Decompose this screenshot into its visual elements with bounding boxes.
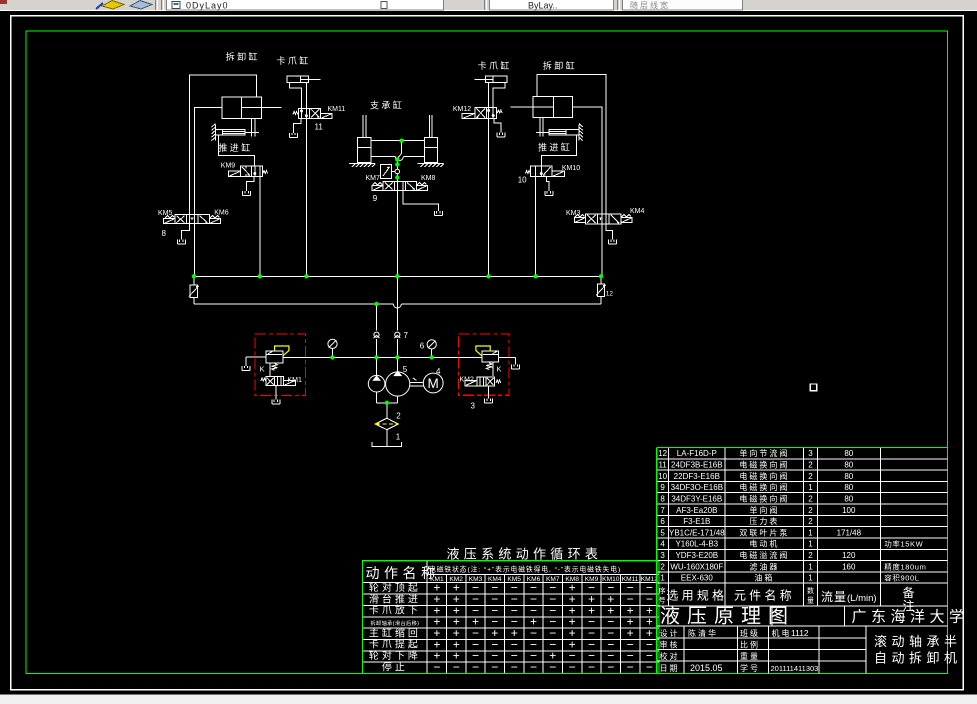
svg-text:M: M bbox=[428, 376, 439, 391]
svg-text:液压原理图: 液压原理图 bbox=[660, 605, 795, 628]
svg-text:−: − bbox=[607, 660, 614, 674]
svg-text:机电: 机电 bbox=[772, 628, 792, 638]
svg-text:K: K bbox=[497, 365, 502, 374]
rod yoke left bbox=[251, 119, 255, 137]
svg-text:YDF3-E20B: YDF3-E20B bbox=[675, 551, 718, 560]
svg-text:号: 号 bbox=[659, 597, 667, 605]
svg-text:随层线宽: 随层线宽 bbox=[630, 0, 670, 10]
cylinder 支承缸 left bbox=[358, 138, 371, 163]
svg-text:比例: 比例 bbox=[740, 640, 760, 650]
wire KM9 tank branch bbox=[247, 176, 255, 191]
svg-text:KM9: KM9 bbox=[221, 163, 236, 170]
svg-text:液压系统动作循环表: 液压系统动作循环表 bbox=[447, 547, 603, 562]
svg-text:日期: 日期 bbox=[660, 664, 680, 673]
wire pump risers bbox=[377, 357, 398, 375]
svg-text:34DF3Y-E16B: 34DF3Y-E16B bbox=[671, 494, 722, 503]
toolbar separator 2 bbox=[485, 0, 487, 10]
wire center column to check valve 7 bbox=[396, 276, 398, 357]
wire KM11 feeder down bbox=[305, 118, 307, 276]
cylinder 拆卸缸 right bbox=[511, 97, 573, 118]
toolbar strip bbox=[0, 0, 977, 11]
svg-text:推进缸: 推进缸 bbox=[218, 142, 252, 153]
svg-text:80: 80 bbox=[844, 483, 853, 492]
svg-text:单向节流阀: 单向节流阀 bbox=[739, 448, 789, 458]
svg-text:11: 11 bbox=[315, 123, 324, 132]
stray point marker square bbox=[810, 384, 816, 391]
svg-text:元件名称: 元件名称 bbox=[734, 588, 795, 603]
valve KM1 bbox=[261, 377, 296, 386]
wire top-right loop to 拆卸缸R bbox=[537, 75, 606, 214]
pressure gauge 6 bbox=[427, 340, 436, 358]
svg-text:WU-160X180F: WU-160X180F bbox=[670, 562, 723, 571]
check valve 7 bbox=[394, 332, 400, 338]
svg-text:支承缸: 支承缸 bbox=[370, 100, 404, 111]
svg-text:−: − bbox=[569, 660, 576, 674]
svg-text:KM4: KM4 bbox=[630, 208, 645, 215]
rod yoke right bbox=[540, 118, 543, 137]
svg-text:电磁换向阀: 电磁换向阀 bbox=[739, 482, 789, 492]
svg-text:−: − bbox=[627, 660, 634, 674]
svg-text:2: 2 bbox=[396, 412, 401, 421]
wire KM3/KM4 tank branch bbox=[606, 224, 613, 240]
svg-text:ByLay..: ByLay.. bbox=[528, 1, 557, 11]
svg-text:KM7: KM7 bbox=[366, 175, 381, 182]
svg-text:卡爪提起: 卡爪提起 bbox=[369, 638, 421, 651]
wire top-left loop to 拆卸缸L bbox=[190, 75, 257, 216]
svg-text:8: 8 bbox=[660, 494, 665, 503]
svg-text:设计: 设计 bbox=[660, 628, 680, 638]
table component-list rows bbox=[658, 448, 926, 582]
svg-text:120: 120 bbox=[842, 551, 856, 560]
svg-text:油箱: 油箱 bbox=[754, 573, 774, 583]
svg-text:广东海洋大学: 广东海洋大学 bbox=[852, 609, 969, 626]
svg-text:4: 4 bbox=[660, 540, 665, 549]
svg-text:1: 1 bbox=[396, 433, 401, 442]
wire KM12 tank branch bbox=[494, 119, 501, 133]
relief right spring and drop bbox=[486, 362, 493, 376]
relief left spring and drop bbox=[270, 363, 278, 377]
wire 推进缸R to valve KM10 bbox=[541, 135, 576, 166]
wire KM10 feeder down bbox=[535, 176, 537, 276]
svg-text:容积900L: 容积900L bbox=[884, 573, 919, 583]
svg-text:24DF3B-E16B: 24DF3B-E16B bbox=[671, 461, 723, 470]
title-block row 审核/比例 bbox=[660, 640, 761, 650]
pump small (left of double pump 5) bbox=[368, 375, 385, 392]
svg-text:11: 11 bbox=[658, 461, 667, 470]
svg-text:10: 10 bbox=[518, 176, 527, 185]
toolbar icon red fragment bbox=[0, 0, 7, 4]
table action-cycle green border bbox=[363, 561, 659, 674]
svg-text:5: 5 bbox=[403, 365, 408, 374]
svg-text:量: 量 bbox=[807, 597, 814, 605]
svg-text:卡爪缸: 卡爪缸 bbox=[478, 60, 512, 71]
svg-text:流量(L/min): 流量(L/min) bbox=[821, 590, 877, 604]
svg-text:数: 数 bbox=[807, 586, 814, 595]
tank 1 (reservoir) bbox=[372, 442, 402, 447]
svg-text:10: 10 bbox=[658, 472, 667, 481]
tank under valve 8 bbox=[177, 240, 185, 245]
svg-text:−: − bbox=[511, 660, 518, 674]
check valve small pump bbox=[374, 332, 380, 338]
tank under KM9 bbox=[243, 191, 251, 196]
svg-text:K: K bbox=[260, 365, 265, 374]
wire KM9 feeder down bbox=[259, 176, 261, 276]
svg-text:22DF3-E16B: 22DF3-E16B bbox=[674, 472, 720, 481]
svg-text:7: 7 bbox=[404, 331, 409, 340]
svg-text:9: 9 bbox=[373, 193, 378, 203]
toolbar color combobox bbox=[490, 0, 614, 11]
svg-text:AF3-Ea20B: AF3-Ea20B bbox=[676, 506, 717, 515]
svg-text:−: − bbox=[549, 660, 556, 674]
svg-text:1: 1 bbox=[808, 528, 813, 537]
title-block row 设计/陈清华/班级/机电1112 bbox=[660, 628, 809, 638]
svg-text:序: 序 bbox=[659, 586, 667, 595]
wire support top pipe bbox=[371, 140, 425, 142]
valve KM2 bbox=[465, 377, 501, 386]
valve KM10 bbox=[526, 166, 565, 176]
ground hatch under right support cylinder bbox=[418, 164, 444, 167]
svg-text:80: 80 bbox=[844, 472, 853, 481]
svg-text:电磁换向阀: 电磁换向阀 bbox=[739, 471, 789, 481]
tank under KM10 bbox=[545, 191, 553, 196]
svg-text:电磁铁状态(注: “+”表示电磁铁得电, “-”表示电磁铁失: 电磁铁状态(注: “+”表示电磁铁得电, “-”表示电磁铁失电) bbox=[429, 565, 621, 574]
svg-text:2: 2 bbox=[808, 506, 813, 515]
toolbar lineweight combobox bbox=[623, 0, 743, 10]
svg-text:1112: 1112 bbox=[791, 628, 809, 638]
svg-text:3: 3 bbox=[808, 449, 813, 458]
svg-text:停止: 停止 bbox=[382, 660, 408, 673]
wire KM12 feeder down bbox=[488, 119, 490, 277]
svg-text:1: 1 bbox=[808, 562, 813, 571]
svg-text:审核: 审核 bbox=[660, 640, 680, 650]
svg-text:KM1: KM1 bbox=[288, 377, 303, 384]
wire pump outlets join bbox=[377, 392, 398, 418]
ground hatch under left support cylinder bbox=[349, 164, 375, 167]
svg-text:压力表: 压力表 bbox=[749, 516, 779, 526]
pilot check valve box bbox=[381, 165, 400, 179]
svg-text:2: 2 bbox=[808, 517, 813, 526]
svg-text:12: 12 bbox=[606, 291, 614, 298]
svg-text:滚动轴承半: 滚动轴承半 bbox=[874, 634, 962, 649]
motor 4 bbox=[423, 373, 443, 393]
svg-text:2: 2 bbox=[808, 472, 813, 481]
svg-text:KM2: KM2 bbox=[460, 377, 475, 384]
tank under KM1 bbox=[272, 400, 280, 405]
wire manifold line 2 with hop bbox=[194, 303, 601, 305]
svg-text:轮对顶起: 轮对顶起 bbox=[369, 581, 421, 594]
svg-text:160: 160 bbox=[842, 562, 856, 571]
wire KM1 outlet bbox=[275, 386, 277, 400]
svg-text:80: 80 bbox=[844, 494, 853, 503]
wire small pump column bbox=[376, 304, 378, 357]
cylinder 推进缸 left with wall mount bbox=[212, 124, 259, 141]
wire valve9 feeder down to manifold bbox=[396, 190, 398, 276]
svg-text:电动机: 电动机 bbox=[749, 539, 779, 549]
svg-text:滑台推进: 滑台推进 bbox=[369, 592, 421, 605]
svg-text:备: 备 bbox=[902, 586, 917, 600]
wire pressure header line bbox=[283, 356, 482, 358]
red highlight box left bbox=[255, 334, 306, 396]
toolbar separators bbox=[156, 0, 164, 10]
wire support center drop to valve 9 bbox=[397, 141, 401, 182]
svg-text:单向阀: 单向阀 bbox=[749, 505, 779, 515]
svg-text:功率15KW: 功率15KW bbox=[884, 539, 923, 549]
svg-text:滤油器: 滤油器 bbox=[749, 561, 779, 571]
svg-text:4: 4 bbox=[436, 367, 441, 376]
svg-text:−: − bbox=[433, 660, 440, 674]
svg-text:YB1C/E-171/48: YB1C/E-171/48 bbox=[669, 528, 725, 537]
svg-text:KM10: KM10 bbox=[562, 165, 580, 172]
table component-list green edges bbox=[657, 448, 948, 674]
svg-text:推进缸: 推进缸 bbox=[538, 142, 572, 153]
table component-list header bbox=[659, 586, 918, 613]
relief valve right pilot yellow arc bbox=[476, 346, 490, 356]
table action-cycle grid bbox=[363, 561, 659, 674]
wire valve9 tank branch bbox=[403, 190, 439, 211]
wire relief right tank stub bbox=[498, 357, 515, 364]
svg-text:201111411303: 201111411303 bbox=[771, 664, 819, 673]
tank under KM12 bbox=[497, 133, 505, 138]
svg-text:−: − bbox=[453, 660, 460, 674]
svg-text:KM8: KM8 bbox=[421, 175, 436, 182]
svg-text:−: − bbox=[472, 660, 479, 674]
svg-text:轮对下降: 轮对下降 bbox=[369, 649, 421, 662]
coupling pump-motor bbox=[410, 378, 424, 386]
svg-text:双联叶片泵: 双联叶片泵 bbox=[739, 527, 789, 537]
cylinder 推进缸 right with wall mount bbox=[536, 124, 583, 141]
svg-text:KM5: KM5 bbox=[158, 210, 173, 217]
wire manifold line 1 bbox=[194, 275, 601, 277]
action table rows bbox=[369, 581, 653, 674]
svg-text:拆卸缸: 拆卸缸 bbox=[543, 60, 577, 71]
tank under KM2 bbox=[485, 399, 493, 404]
valve KM11 bbox=[293, 108, 332, 118]
svg-text:2: 2 bbox=[808, 494, 813, 503]
wire 卡爪缸R left port down bbox=[488, 82, 490, 107]
svg-text:−: − bbox=[588, 660, 595, 674]
svg-text:34DF3O-E16B: 34DF3O-E16B bbox=[671, 483, 723, 492]
wire filter to tank 1 bbox=[386, 430, 388, 447]
throttle valve 12 right end bbox=[596, 276, 606, 304]
svg-text:−: − bbox=[491, 660, 498, 674]
relief valve left pilot yellow arc bbox=[275, 346, 289, 356]
wire left port feeder line bbox=[195, 107, 222, 276]
svg-text:3: 3 bbox=[471, 402, 476, 411]
svg-text:电磁溢流阀: 电磁溢流阀 bbox=[739, 550, 789, 560]
svg-text:KM3: KM3 bbox=[566, 210, 581, 217]
filter yellow dashed line bbox=[376, 423, 398, 426]
svg-text:主缸缩回: 主缸缩回 bbox=[369, 626, 421, 639]
svg-text:KM12: KM12 bbox=[453, 106, 471, 113]
svg-text:−: − bbox=[646, 660, 653, 674]
svg-text:1: 1 bbox=[808, 483, 813, 492]
table component-list grid bbox=[657, 448, 948, 607]
relief valve right body bbox=[482, 351, 498, 362]
tank under valve KM3/KM4 bbox=[609, 240, 617, 245]
toolbar icon layers (blue) bbox=[130, 1, 152, 10]
svg-text:班级: 班级 bbox=[740, 628, 760, 638]
svg-text:校对: 校对 bbox=[660, 651, 680, 661]
cylinder 拆卸缸 left bbox=[222, 97, 282, 119]
toolbar icon make-layer-current (yellow) bbox=[96, 1, 124, 10]
wire KM10 tank branch bbox=[547, 176, 549, 191]
support cylinder rods bbox=[363, 115, 432, 138]
svg-text:0DyLay0: 0DyLay0 bbox=[186, 1, 229, 11]
valve KM9 bbox=[228, 166, 267, 176]
svg-text:陈清华: 陈清华 bbox=[688, 628, 718, 638]
relief valve left body bbox=[266, 351, 283, 363]
red highlight box right bbox=[459, 334, 510, 395]
svg-text:100: 100 bbox=[842, 506, 856, 515]
throttle valve left end bbox=[189, 276, 199, 304]
valve 9 KM7/KM8 (3-pos) bbox=[372, 182, 427, 191]
svg-text:2: 2 bbox=[660, 562, 665, 571]
svg-text:电磁换向阀: 电磁换向阀 bbox=[739, 460, 789, 470]
svg-text:6: 6 bbox=[660, 517, 665, 526]
svg-text:Y160L-4-B3: Y160L-4-B3 bbox=[675, 540, 718, 549]
valve KM12 bbox=[462, 107, 502, 118]
svg-text:2: 2 bbox=[808, 461, 813, 470]
wire 卡爪缸L right port down bbox=[305, 82, 307, 108]
wire KM2 outlet bbox=[488, 386, 490, 399]
bottom gray status strip bbox=[0, 695, 977, 704]
wire valve8 tank branch bbox=[181, 224, 189, 240]
tank right relief bbox=[512, 364, 520, 369]
svg-text:自动拆卸机: 自动拆卸机 bbox=[874, 651, 962, 666]
wire right port feeder line bbox=[572, 107, 602, 276]
header KM columns bbox=[430, 576, 658, 583]
svg-text:2: 2 bbox=[808, 551, 813, 560]
svg-text:1: 1 bbox=[808, 540, 813, 549]
wire relief left tank stub bbox=[246, 357, 266, 366]
svg-text:F3-E1B: F3-E1B bbox=[683, 517, 710, 526]
svg-text:卡爪缸: 卡爪缸 bbox=[277, 55, 311, 66]
svg-text:6: 6 bbox=[420, 341, 425, 350]
cylinder 卡爪缸 right bbox=[474, 76, 507, 82]
svg-text:1: 1 bbox=[660, 574, 665, 583]
wire 卡爪缸R right port to valve KM12 bbox=[493, 82, 505, 107]
junction dots (green) bbox=[192, 139, 603, 405]
svg-text:选用规格: 选用规格 bbox=[666, 588, 727, 603]
svg-text:拆卸轴承(滑台后移): 拆卸轴承(滑台后移) bbox=[370, 619, 419, 627]
wire 卡爪缸L left port to valve KM11 bbox=[290, 82, 302, 108]
pump 5 (main) bbox=[386, 371, 410, 396]
svg-text:EEX-630: EEX-630 bbox=[681, 574, 714, 583]
svg-text:KM11: KM11 bbox=[328, 106, 346, 113]
svg-text:171/48: 171/48 bbox=[837, 528, 862, 537]
svg-text:1: 1 bbox=[808, 574, 813, 583]
tank left relief bbox=[242, 366, 250, 371]
svg-text:电磁换向阀: 电磁换向阀 bbox=[739, 493, 789, 503]
title block grid bbox=[657, 606, 948, 673]
svg-text:精度180um: 精度180um bbox=[884, 561, 926, 571]
title-block row 校对/重量 bbox=[660, 651, 761, 661]
svg-text:−: − bbox=[530, 660, 537, 674]
pressure gauge left bbox=[328, 339, 337, 357]
svg-text:KM6: KM6 bbox=[214, 209, 229, 216]
svg-text:卡爪放下: 卡爪放下 bbox=[369, 604, 421, 617]
cylinder 支承缸 right bbox=[425, 138, 438, 163]
tank under KM11 bbox=[290, 133, 298, 138]
svg-text:9: 9 bbox=[660, 483, 665, 492]
svg-text:5: 5 bbox=[660, 528, 665, 537]
wire KM11 tank branch bbox=[294, 118, 301, 132]
filter 2 bbox=[375, 418, 398, 430]
wire support bottom pipe with crossover hop bbox=[371, 156, 425, 158]
valve KM3/KM4 (3-pos) bbox=[574, 214, 632, 224]
toolbar layer combobox bbox=[167, 0, 444, 11]
svg-text:80: 80 bbox=[844, 449, 853, 458]
wire 推进缸L to valve KM9 bbox=[218, 135, 254, 166]
svg-text:3: 3 bbox=[660, 551, 665, 560]
svg-text:学号: 学号 bbox=[740, 663, 760, 673]
svg-text:12: 12 bbox=[658, 449, 667, 458]
svg-text:80: 80 bbox=[844, 461, 853, 470]
svg-text:8: 8 bbox=[162, 229, 167, 238]
svg-text:重量: 重量 bbox=[740, 651, 760, 661]
svg-text:2015.05: 2015.05 bbox=[690, 663, 723, 673]
cylinder 卡爪缸 left bbox=[287, 76, 321, 82]
tank under valve 9 bbox=[434, 211, 442, 216]
title-block row 日期/2015.05/学号 bbox=[660, 663, 819, 673]
toolbar separator 3 bbox=[618, 0, 620, 10]
svg-text:7: 7 bbox=[660, 506, 665, 515]
svg-text:拆卸缸: 拆卸缸 bbox=[226, 51, 260, 62]
valve 8 KM5/KM6 (3-pos) bbox=[164, 215, 221, 224]
svg-text:LA-F16D-P: LA-F16D-P bbox=[677, 449, 717, 458]
